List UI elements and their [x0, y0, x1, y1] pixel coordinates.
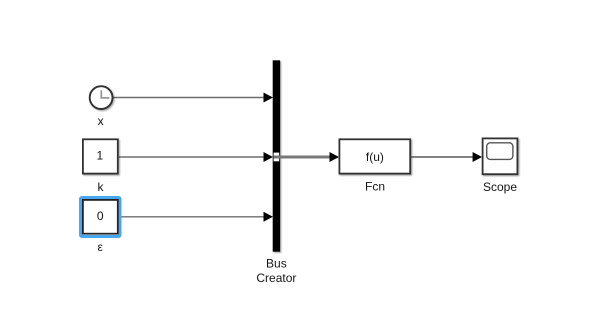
svg-text:1: 1 [97, 149, 104, 163]
svg-text:ε: ε [98, 240, 104, 254]
svg-text:k: k [98, 180, 105, 194]
svg-text:x: x [98, 114, 104, 128]
svg-text:Creator: Creator [256, 271, 296, 285]
svg-text:Scope: Scope [483, 180, 517, 194]
svg-text:0: 0 [97, 209, 104, 223]
svg-text:f(u): f(u) [366, 150, 384, 164]
svg-text:Fcn: Fcn [365, 179, 385, 193]
svg-text:Bus: Bus [266, 257, 287, 271]
